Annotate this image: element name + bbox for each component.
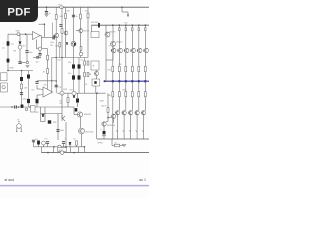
svg-text:22u: 22u xyxy=(2,48,5,50)
capacitor C8 xyxy=(78,75,81,79)
wire xyxy=(69,145,71,147)
wire xyxy=(131,81,133,92)
transistor output QT10 xyxy=(144,48,148,52)
wire xyxy=(143,115,145,139)
capacitor C27 xyxy=(62,142,65,144)
resistor R collector xyxy=(80,14,82,19)
resistor emitter RE10 xyxy=(138,92,140,97)
wire xyxy=(26,34,28,50)
transistor output QT8 xyxy=(138,48,142,52)
wire xyxy=(118,81,120,92)
wire output column xyxy=(112,46,114,48)
thermal bias block TH2 xyxy=(92,79,100,86)
svg-text:PDF: PDF xyxy=(7,7,30,19)
svg-text:IC2: IC2 xyxy=(32,90,35,92)
wire xyxy=(65,122,67,147)
thermal bias block TH1 xyxy=(91,61,99,70)
wire xyxy=(112,72,114,81)
svg-text:47R 2W: 47R 2W xyxy=(91,22,98,24)
wire xyxy=(37,94,40,96)
wire xyxy=(112,53,114,67)
wire xyxy=(53,147,55,153)
resistor emitter RE2 xyxy=(112,92,114,97)
transistor output QT5 xyxy=(122,111,126,115)
wire output bottom rail xyxy=(97,138,149,140)
resistor base tick xyxy=(123,49,125,51)
wire xyxy=(47,144,49,147)
resistor emitter RE3 xyxy=(118,66,120,71)
resistor emitter RE9 xyxy=(138,66,140,71)
capacitor C24 xyxy=(32,140,35,142)
wire xyxy=(111,139,113,146)
wire xyxy=(55,7,57,33)
wire feedback xyxy=(37,80,56,82)
node N9 xyxy=(73,152,75,154)
node bead xyxy=(58,145,61,148)
wire xyxy=(121,7,123,12)
resistor base tick xyxy=(117,49,119,51)
transistor Q9 xyxy=(62,115,65,121)
wire xyxy=(125,81,127,92)
capacitor C13 xyxy=(18,62,21,64)
svg-text:10p: 10p xyxy=(58,87,61,89)
wire output column xyxy=(125,25,127,49)
wire xyxy=(96,70,98,71)
transistor Q2 xyxy=(111,41,116,46)
emitter arrow tick xyxy=(116,130,117,132)
wire xyxy=(37,48,39,50)
capacitor C30 xyxy=(15,105,17,108)
divider line xyxy=(0,185,149,187)
node N3 xyxy=(18,106,20,108)
capacitor C23 xyxy=(56,130,59,132)
svg-text:4K7: 4K7 xyxy=(23,46,26,48)
node rail tap xyxy=(119,24,121,26)
resistor R driver xyxy=(107,108,109,113)
svg-text:LP1: LP1 xyxy=(45,139,48,141)
svg-text:100R: 100R xyxy=(100,101,105,103)
wire output-stage top rail xyxy=(92,24,150,26)
node N8 xyxy=(47,152,49,154)
wire xyxy=(80,33,82,58)
wire xyxy=(40,35,41,37)
wire xyxy=(52,23,54,36)
node I xyxy=(51,80,53,82)
wire xyxy=(118,53,120,67)
wire output column xyxy=(144,25,146,49)
wire xyxy=(70,147,72,153)
wire xyxy=(81,134,83,147)
node N7 xyxy=(84,146,86,148)
transistor output QT9 xyxy=(135,111,139,115)
resistor base RB3 xyxy=(132,28,134,31)
svg-text:D9: D9 xyxy=(74,139,76,141)
resistor emitter RE4 xyxy=(118,92,120,97)
PDF badge xyxy=(0,0,38,22)
fuse F1 xyxy=(60,6,64,9)
capacitor C15 xyxy=(72,15,75,17)
svg-text:R30: R30 xyxy=(119,64,122,66)
wire xyxy=(136,115,138,139)
wire input top xyxy=(8,33,33,35)
wire xyxy=(45,113,62,115)
wire xyxy=(125,72,127,81)
svg-text:st aud: st aud xyxy=(5,178,15,182)
resistor R xyxy=(80,47,82,51)
wire xyxy=(73,107,75,115)
wire xyxy=(36,40,38,49)
node rail joint xyxy=(138,80,141,83)
wire xyxy=(138,53,140,67)
transistor Q3 driver xyxy=(111,114,115,118)
protection box xyxy=(31,106,36,113)
node bead xyxy=(25,108,28,111)
wire xyxy=(40,107,42,122)
resistor R xyxy=(21,84,23,89)
wire xyxy=(33,56,36,58)
wire xyxy=(47,49,49,56)
wire xyxy=(125,53,127,67)
node N1 xyxy=(55,80,57,82)
resistor base tick xyxy=(128,112,130,114)
ground xyxy=(45,14,49,16)
capacitor C4 xyxy=(94,81,96,84)
wire xyxy=(40,36,42,49)
resistor base RB4 xyxy=(138,28,140,31)
wire xyxy=(118,72,120,81)
resistor base tick xyxy=(110,49,112,51)
resistor base tick xyxy=(122,112,124,114)
wire mid signal xyxy=(58,92,106,94)
node input jack J6 xyxy=(17,124,22,129)
node rail tap xyxy=(145,24,147,26)
wire output column xyxy=(131,25,133,49)
wire xyxy=(76,145,78,147)
resistor R ground xyxy=(114,144,119,147)
resistor base tick xyxy=(143,49,145,51)
svg-text:1n: 1n xyxy=(65,139,67,141)
wire xyxy=(125,97,127,111)
svg-text:au 1: au 1 xyxy=(139,178,146,182)
node jack J2 xyxy=(72,91,76,95)
wire xyxy=(95,86,97,93)
node rail tap xyxy=(125,24,127,26)
resistor R collector xyxy=(87,13,89,18)
node rail joint xyxy=(131,80,134,83)
wire xyxy=(19,49,21,61)
wire xyxy=(84,147,86,153)
wire xyxy=(123,115,125,139)
wire bottom signal xyxy=(34,146,85,148)
wire long vertical xyxy=(61,7,63,93)
node N5 xyxy=(53,146,55,148)
ground speaker xyxy=(102,136,106,138)
node N4 xyxy=(29,106,31,108)
emitter arrow tick xyxy=(142,130,143,132)
wire xyxy=(55,36,57,38)
svg-text:R12: R12 xyxy=(58,60,61,62)
wire xyxy=(144,97,146,111)
wire xyxy=(73,46,75,64)
wire xyxy=(41,36,52,38)
capacitor C34 xyxy=(37,56,38,59)
wire xyxy=(44,24,46,37)
wire output column xyxy=(118,25,120,49)
wire xyxy=(39,56,41,58)
wire xyxy=(131,53,133,67)
emitter arrow tick xyxy=(129,130,130,132)
wire xyxy=(131,97,133,111)
wire ground bus xyxy=(42,152,150,154)
wire xyxy=(36,95,38,98)
node preset P1 xyxy=(79,52,82,55)
node J xyxy=(61,57,63,59)
diode D6 xyxy=(73,96,75,98)
wire xyxy=(103,126,105,132)
wire xyxy=(130,115,132,139)
capacitor C31 xyxy=(21,105,24,108)
wire xyxy=(112,145,114,147)
wire xyxy=(120,145,123,147)
wire xyxy=(106,32,108,34)
node N6 xyxy=(65,146,67,148)
svg-text:1n: 1n xyxy=(49,13,51,15)
resistor R xyxy=(84,61,86,65)
node pin xyxy=(18,121,19,122)
wire xyxy=(122,11,128,13)
svg-text:100n: 100n xyxy=(29,52,33,54)
wire xyxy=(144,53,146,67)
transistor output QT2 xyxy=(118,48,122,52)
capacitor C25 xyxy=(37,141,40,145)
wire xyxy=(78,147,80,153)
wire xyxy=(112,25,114,41)
ground input xyxy=(26,65,30,67)
svg-text:4k: 4k xyxy=(93,66,95,68)
transistor Q4 MJ15003 xyxy=(102,122,106,126)
wire xyxy=(118,97,120,111)
emitter arrow tick xyxy=(123,130,124,132)
wire xyxy=(144,72,146,81)
wire xyxy=(36,104,38,108)
svg-text:SPKR: SPKR xyxy=(98,142,104,144)
op-amp U2 xyxy=(43,87,53,97)
wire xyxy=(144,81,146,92)
resistor emitter RE11 xyxy=(144,66,146,71)
wire xyxy=(21,71,23,108)
node rail tap xyxy=(138,24,140,26)
transistor output QT11 xyxy=(141,111,145,115)
transistor Q7 xyxy=(55,33,59,37)
wire xyxy=(40,88,43,91)
diode D4 xyxy=(42,114,44,116)
wire xyxy=(87,7,89,57)
resistor base tick xyxy=(135,112,137,114)
svg-text:6K8: 6K8 xyxy=(67,11,70,13)
svg-text:2W: 2W xyxy=(60,103,63,105)
capacitor C1 xyxy=(45,11,48,13)
wire xyxy=(20,62,26,64)
capacitor C11 xyxy=(7,41,10,45)
node jack J1 xyxy=(60,91,64,95)
wire xyxy=(103,134,105,135)
capacitor C9 xyxy=(76,98,79,102)
wire left bus xyxy=(8,70,33,72)
node G xyxy=(7,70,9,72)
node E xyxy=(44,23,46,25)
resistor R xyxy=(55,15,57,20)
svg-text:100u: 100u xyxy=(23,99,27,101)
resistor R xyxy=(67,98,69,103)
capacitor C20 xyxy=(27,75,30,79)
wire xyxy=(138,81,140,92)
svg-text:100 W: 100 W xyxy=(101,105,106,107)
wire xyxy=(76,30,79,32)
resistor base RB2 xyxy=(125,28,127,31)
resistor emitter RE7 xyxy=(131,66,133,71)
svg-text:2p2: 2p2 xyxy=(36,61,39,63)
wire xyxy=(38,145,40,147)
resistor R xyxy=(76,141,78,145)
svg-text:10n: 10n xyxy=(55,45,58,47)
transistor Q1 xyxy=(105,32,110,37)
wire xyxy=(36,85,38,89)
wire xyxy=(131,72,133,81)
capacitor C2 xyxy=(59,25,62,27)
power arrow +70V xyxy=(127,15,129,18)
wire xyxy=(19,34,21,41)
wire xyxy=(43,145,45,147)
svg-text:47u: 47u xyxy=(68,73,71,75)
node jack J5 xyxy=(2,86,5,89)
capacitor C7 xyxy=(72,75,75,79)
resistor R xyxy=(87,72,89,76)
diode D1 xyxy=(66,43,68,45)
wire output mid rail (blue) xyxy=(105,80,150,82)
capacitor C5 xyxy=(72,64,75,68)
capacitor C3 xyxy=(98,23,100,28)
resistor base tick xyxy=(130,49,132,51)
node rail joint xyxy=(112,80,115,83)
svg-text:10u: 10u xyxy=(11,44,14,46)
resistor R 0R22 label box xyxy=(58,148,67,152)
wire xyxy=(44,107,46,122)
wire xyxy=(113,118,115,123)
op-amp U1 xyxy=(33,32,41,40)
svg-text:4R7: 4R7 xyxy=(70,90,73,92)
diode D3 xyxy=(19,42,21,44)
svg-text:MJ15003: MJ15003 xyxy=(107,125,115,127)
resistor R xyxy=(61,29,63,34)
svg-text:1n: 1n xyxy=(76,16,78,18)
node K xyxy=(55,57,57,59)
node H xyxy=(21,70,23,72)
resistor emitter RE6 xyxy=(125,92,127,97)
wire xyxy=(47,73,49,93)
wire xyxy=(40,94,43,97)
transistor output QT1 xyxy=(112,48,116,52)
node rail tap xyxy=(112,24,114,26)
svg-text:MJE350: MJE350 xyxy=(84,114,91,116)
svg-text:47u: 47u xyxy=(68,62,71,64)
wire xyxy=(46,7,48,11)
emitter arrow tick xyxy=(136,130,137,132)
wire xyxy=(63,144,65,147)
node B xyxy=(121,6,123,8)
wire xyxy=(80,7,82,29)
svg-text:BD139: BD139 xyxy=(110,32,116,34)
wire block top xyxy=(52,57,89,59)
svg-text:100n: 100n xyxy=(50,42,54,44)
node N2 xyxy=(11,106,13,108)
svg-text:REM: REM xyxy=(10,68,14,70)
wire xyxy=(112,97,114,139)
transistor output QT4 xyxy=(125,48,129,52)
capacitor C12 xyxy=(25,51,28,53)
wire block column xyxy=(84,58,86,94)
capacitor C6 xyxy=(78,64,81,68)
wire xyxy=(77,103,79,107)
wire xyxy=(40,48,43,50)
ground output xyxy=(122,144,126,146)
wire xyxy=(41,147,43,153)
wire xyxy=(37,106,62,108)
resistor base tick xyxy=(136,49,138,51)
wire block column xyxy=(78,58,80,94)
node rail tap xyxy=(132,24,134,26)
resistor R xyxy=(47,55,49,60)
wire xyxy=(61,93,63,118)
wire xyxy=(57,114,59,141)
capacitor C20b xyxy=(7,59,10,63)
wire xyxy=(74,114,77,116)
wire xyxy=(41,121,46,123)
wire block column xyxy=(73,64,75,93)
wire xyxy=(106,59,113,61)
wire xyxy=(47,60,49,69)
node D xyxy=(25,33,27,35)
wire xyxy=(62,106,74,108)
resistor emitter RE8 xyxy=(131,92,133,97)
capacitor C10 xyxy=(75,108,78,111)
node preset P2 xyxy=(38,47,41,50)
resistor R collector xyxy=(65,14,67,19)
svg-text:2n2: 2n2 xyxy=(35,139,38,141)
transistor output QT7 xyxy=(128,111,132,115)
svg-text:C1: C1 xyxy=(45,11,47,13)
wire xyxy=(39,56,41,59)
capacitor C21 xyxy=(27,99,30,103)
wire xyxy=(28,71,30,108)
node lamp LP1 xyxy=(42,141,46,145)
wire xyxy=(0,106,37,108)
wire xyxy=(19,63,21,64)
wire xyxy=(67,93,69,107)
wire xyxy=(41,113,46,115)
wire xyxy=(20,128,22,131)
svg-text:4K7: 4K7 xyxy=(36,112,39,114)
wire xyxy=(77,93,79,98)
svg-text:1K5: 1K5 xyxy=(85,11,88,13)
wire xyxy=(112,46,114,60)
svg-text:T5: T5 xyxy=(109,46,111,48)
wire output column xyxy=(138,25,140,49)
wire xyxy=(55,37,57,93)
resistor emitter RE12 xyxy=(144,92,146,97)
svg-text:MJ15004: MJ15004 xyxy=(86,132,94,134)
wire xyxy=(96,76,98,79)
wire xyxy=(33,142,35,147)
